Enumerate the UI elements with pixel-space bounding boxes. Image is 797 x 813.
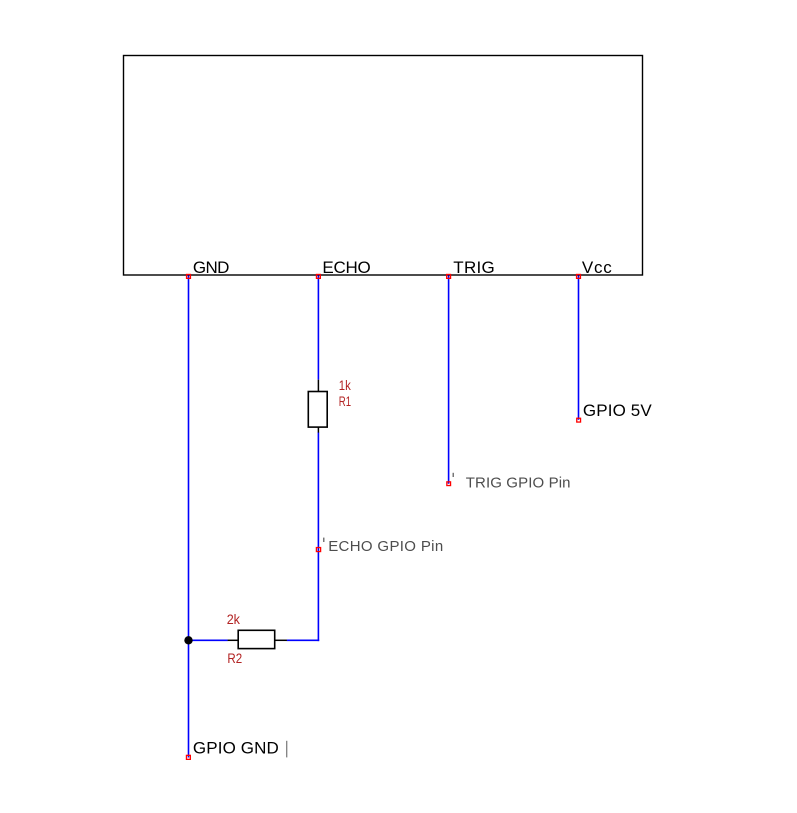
node GPIO GND terminal square (186, 755, 190, 759)
svg-text:TRIG: TRIG (453, 258, 494, 277)
ultrasonic sensor module body U1 (124, 56, 643, 276)
svg-text:R1: R1 (339, 393, 351, 409)
wire TRIG net vertical (448, 276, 450, 484)
resistor R2 body (238, 630, 275, 648)
svg-text:GPIO GND: GPIO GND (193, 738, 279, 757)
node ECHO GPIO Pin terminal square (316, 548, 320, 552)
wire horizontal from GND junction to R2 left lead (189, 639, 228, 641)
tick mark near ECHO pin square (323, 538, 325, 542)
pin ECHO terminal square (316, 274, 320, 278)
svg-text:Vcc: Vcc (582, 258, 612, 277)
junction dot GND/R2 node (184, 636, 192, 644)
resistor R2 left lead (228, 639, 239, 641)
resistor R1 body (308, 392, 327, 428)
resistor R2 right lead (275, 639, 287, 641)
wire ECHO net lower vertical (317, 432, 319, 641)
svg-text:TRIG GPIO Pin: TRIG GPIO Pin (466, 475, 571, 492)
tick mark near TRIG pin end (452, 473, 454, 477)
svg-text:ECHO GPIO Pin: ECHO GPIO Pin (328, 538, 443, 555)
svg-text:GND: GND (193, 258, 230, 277)
resistor R1 top lead (317, 380, 319, 392)
pin Vcc terminal square (577, 274, 581, 278)
svg-text:2k: 2k (227, 611, 241, 627)
svg-text:GPIO 5V: GPIO 5V (583, 401, 652, 420)
node TRIG GPIO Pin terminal square (447, 482, 451, 486)
svg-text:R2: R2 (227, 650, 242, 666)
pin TRIG terminal square (447, 274, 451, 278)
pin GND terminal square (187, 274, 191, 278)
svg-text:ECHO: ECHO (322, 258, 370, 277)
wire ECHO net upper vertical (317, 276, 319, 380)
wire GND net vertical (188, 276, 190, 758)
wire horizontal from R2 right lead to ECHO wire (287, 639, 320, 641)
wire Vcc net vertical (578, 276, 580, 420)
resistor R1 bottom lead (317, 427, 319, 433)
svg-text:1k: 1k (339, 377, 352, 393)
text cursor after GPIO GND (286, 741, 288, 758)
node GPIO 5V terminal square (577, 418, 581, 422)
